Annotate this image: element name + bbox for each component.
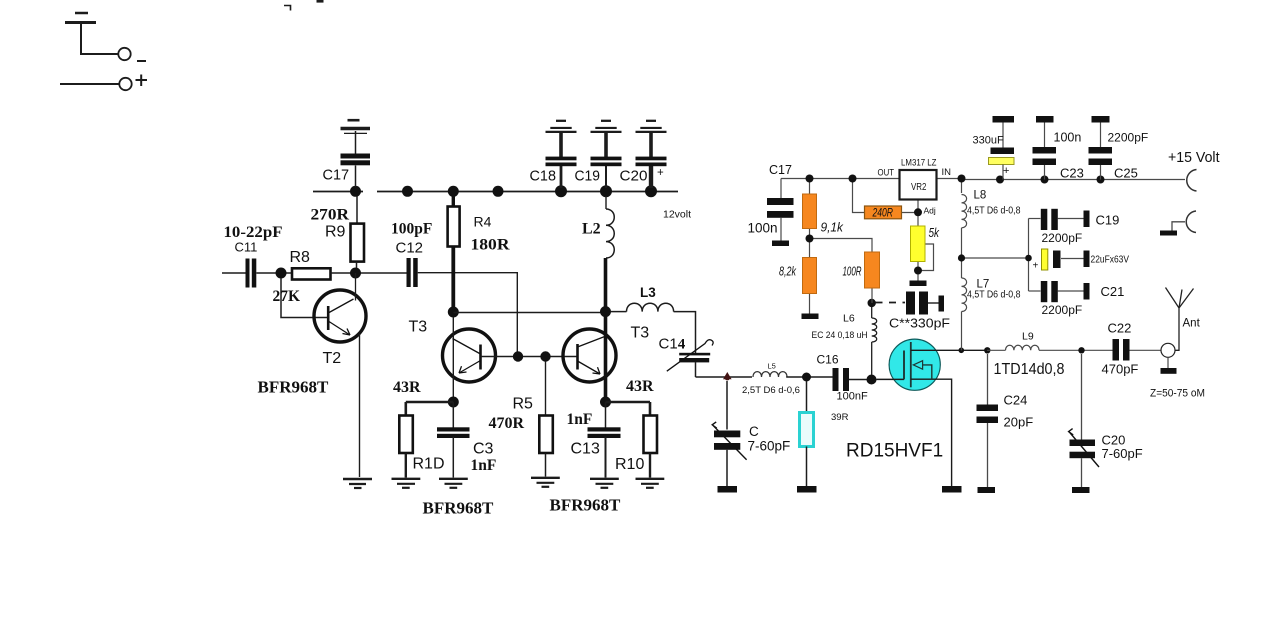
svg-text:C22: C22 [1108, 321, 1132, 336]
svg-text:+15 Volt: +15 Volt [1168, 150, 1220, 166]
svg-text:12volt: 12volt [663, 209, 691, 221]
svg-text:C16: C16 [817, 353, 839, 367]
svg-text:LM317 LZ: LM317 LZ [901, 158, 937, 168]
svg-text:C13: C13 [571, 441, 600, 458]
svg-text:+: + [1003, 165, 1009, 177]
svg-text:27K: 27K [273, 288, 301, 305]
svg-text:L9: L9 [1022, 331, 1034, 343]
svg-text:+: + [1033, 261, 1039, 272]
svg-text:T3: T3 [631, 325, 650, 342]
svg-text:R4: R4 [474, 214, 492, 230]
svg-text:L6: L6 [843, 313, 855, 325]
svg-text:1TD14d0,8: 1TD14d0,8 [994, 361, 1065, 378]
svg-text:100n: 100n [1054, 131, 1082, 145]
svg-text:R5: R5 [513, 396, 534, 413]
svg-text:C12: C12 [396, 240, 424, 257]
svg-text:240R: 240R [872, 208, 893, 220]
svg-text:L2: L2 [582, 221, 601, 238]
svg-text:C19: C19 [575, 168, 601, 185]
svg-text:C20: C20 [620, 168, 648, 185]
svg-text:T2: T2 [323, 350, 342, 367]
svg-text:R9: R9 [325, 224, 346, 241]
svg-text:10-22pF: 10-22pF [224, 224, 283, 241]
svg-text:22uFx63V: 22uFx63V [1091, 254, 1130, 266]
svg-text:1nF: 1nF [471, 457, 497, 474]
svg-text:180R: 180R [471, 237, 510, 254]
svg-text:L8: L8 [974, 190, 987, 202]
svg-text:L5: L5 [768, 362, 776, 371]
svg-text:8,2k: 8,2k [779, 264, 797, 279]
svg-text:R1D: R1D [413, 456, 445, 473]
svg-text:Z=50-75 oM: Z=50-75 oM [1150, 388, 1205, 400]
svg-text:VR2: VR2 [911, 181, 927, 193]
svg-text:270R: 270R [311, 207, 350, 224]
svg-text:2,5T D6 d-0,6: 2,5T D6 d-0,6 [742, 385, 800, 396]
svg-text:C17: C17 [323, 168, 350, 184]
svg-text:330uF: 330uF [973, 135, 1004, 147]
svg-text:C17: C17 [769, 163, 792, 177]
svg-text:4,5T D6 d-0,8: 4,5T D6 d-0,8 [967, 206, 1021, 217]
svg-text:2200pF: 2200pF [1042, 303, 1083, 317]
svg-text:C3: C3 [473, 441, 494, 458]
svg-text:100R: 100R [843, 264, 862, 279]
svg-text:L3: L3 [640, 285, 656, 300]
svg-text:470pF: 470pF [1102, 362, 1139, 377]
svg-text:R8: R8 [290, 249, 311, 266]
svg-text:BFR968T: BFR968T [423, 499, 495, 518]
svg-text:100n: 100n [748, 221, 778, 236]
svg-text:4,5T D6 d-0,8: 4,5T D6 d-0,8 [967, 290, 1021, 301]
svg-text:39R: 39R [831, 412, 849, 423]
svg-text:C11: C11 [235, 240, 258, 255]
svg-text:C: C [749, 424, 759, 439]
svg-text:470R: 470R [489, 415, 525, 432]
svg-text:C19: C19 [1096, 213, 1120, 228]
svg-text:43R: 43R [393, 379, 421, 396]
svg-text:OUT: OUT [878, 168, 895, 178]
svg-text:9,1k: 9,1k [821, 220, 845, 235]
svg-text:C24: C24 [1004, 393, 1028, 408]
svg-text:T3: T3 [409, 319, 428, 336]
svg-text:R10: R10 [615, 456, 644, 473]
svg-text:C25: C25 [1114, 166, 1138, 181]
svg-text:EC 24 0,18 uH: EC 24 0,18 uH [812, 330, 868, 341]
svg-text:C23: C23 [1060, 166, 1084, 181]
svg-text:C18: C18 [530, 168, 557, 185]
svg-text:5k: 5k [929, 225, 941, 240]
svg-text:43R: 43R [626, 378, 654, 395]
svg-text:1nF: 1nF [567, 411, 593, 428]
svg-text:C14: C14 [659, 336, 686, 353]
svg-text:7-60pF: 7-60pF [748, 439, 791, 454]
svg-text:100pF: 100pF [391, 221, 432, 238]
svg-text:RD15HVF1: RD15HVF1 [846, 441, 943, 462]
svg-text:2200pF: 2200pF [1042, 231, 1083, 245]
svg-text:7-60pF: 7-60pF [1102, 446, 1143, 461]
svg-text:20pF: 20pF [1004, 415, 1034, 430]
svg-text:BFR968T: BFR968T [550, 496, 622, 515]
svg-text:Adj: Adj [924, 206, 936, 216]
svg-text:Ant: Ant [1183, 318, 1201, 330]
svg-text:BFR968T: BFR968T [258, 378, 330, 397]
svg-text:C21: C21 [1101, 284, 1125, 299]
svg-text:+: + [657, 167, 664, 179]
svg-text:C**330pF: C**330pF [889, 316, 950, 331]
svg-text:IN: IN [942, 167, 952, 178]
svg-text:2200pF: 2200pF [1108, 131, 1149, 145]
svg-text:100nF: 100nF [837, 391, 868, 403]
